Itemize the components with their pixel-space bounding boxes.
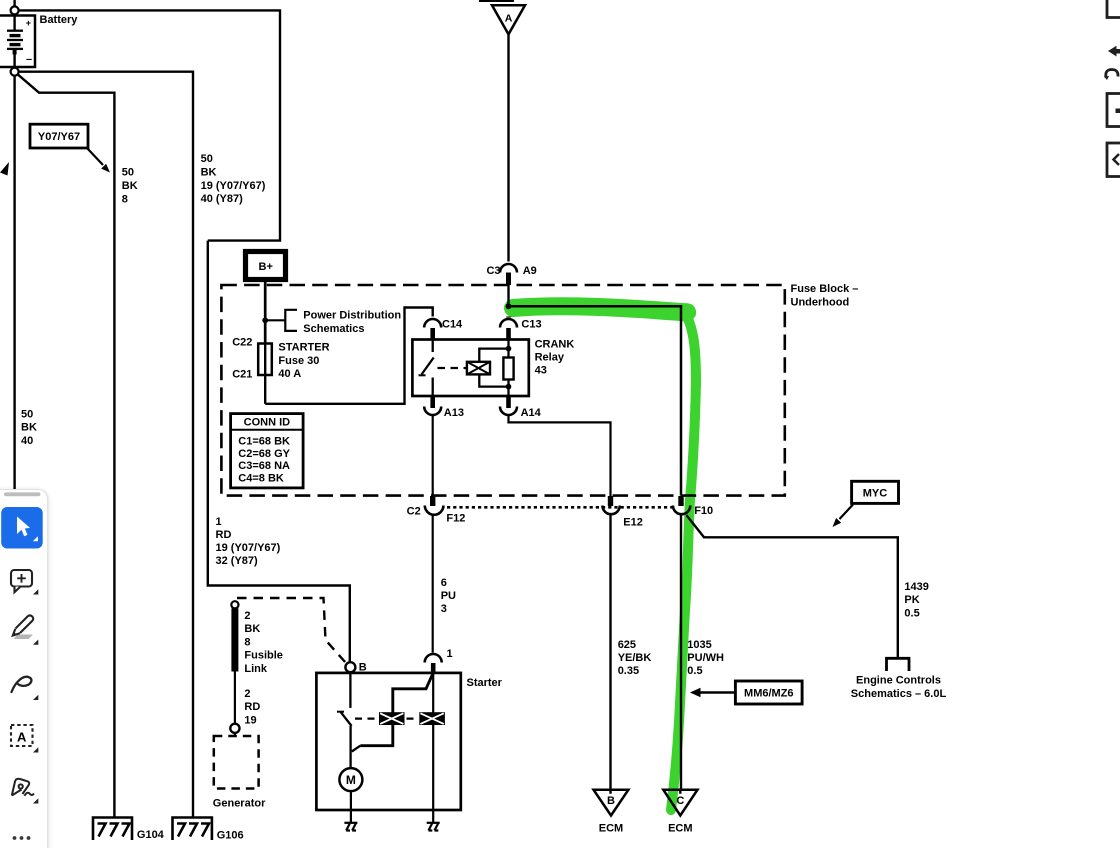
relay linkage dashes [438, 367, 467, 369]
svg-text:PK: PK [904, 594, 919, 606]
starter solenoid feed [360, 673, 433, 746]
svg-text:C13: C13 [521, 319, 541, 331]
connector 1 stub [431, 663, 436, 673]
svg-text:Fuse 30: Fuse 30 [278, 355, 319, 367]
svg-text:BK: BK [201, 166, 217, 178]
toolbar comment tool [11, 570, 32, 592]
toolbar select tool (active) [1, 507, 43, 549]
svg-text:ECM: ECM [668, 823, 692, 835]
off-page bracket power distribution [285, 310, 297, 331]
svg-text:A13: A13 [444, 407, 464, 419]
node relay coil bottom junction [506, 384, 512, 390]
svg-text:3: 3 [441, 603, 447, 615]
wire 50 BK 8 to G104 [15, 72, 115, 818]
ground stub motor [350, 810, 352, 823]
arrow from MYC to wire [840, 505, 854, 520]
arrow from Y07/Y67 to wire [87, 148, 104, 166]
wire junction to F10 (highlighted circuit) [509, 306, 682, 495]
svg-text:BK: BK [21, 422, 37, 434]
connector F10 cup [673, 506, 690, 515]
svg-text:C22: C22 [232, 337, 252, 349]
svg-text:C1=68 BK: C1=68 BK [238, 436, 290, 448]
svg-text:Schematics – 6.0L: Schematics – 6.0L [851, 688, 947, 700]
svg-text:Schematics: Schematics [303, 323, 364, 335]
svg-text:40 (Y87): 40 (Y87) [201, 193, 244, 205]
svg-text:B+: B+ [259, 261, 273, 273]
svg-text:2: 2 [244, 610, 250, 622]
relay coil loop [479, 349, 509, 387]
connector E12 stub [608, 496, 613, 506]
fragment icon box top [1107, 0, 1120, 18]
svg-text:Link: Link [244, 663, 267, 675]
connector A13 stub [430, 396, 435, 408]
toolbar more dots [13, 836, 31, 840]
connector A14 cup [500, 407, 517, 416]
svg-text:A14: A14 [521, 407, 542, 419]
svg-text:19 (Y07/Y67): 19 (Y07/Y67) [216, 542, 281, 554]
fusible link top circle [231, 601, 238, 608]
toolbar signature tool [12, 779, 34, 796]
svg-text:A: A [505, 13, 513, 25]
svg-text:MM6/MZ6: MM6/MZ6 [744, 688, 794, 700]
svg-text:0.5: 0.5 [687, 665, 702, 677]
svg-text:Battery: Battery [40, 14, 79, 26]
starter solenoid winding 1 [380, 713, 403, 724]
toolbar drag handle [4, 492, 41, 496]
svg-text:8: 8 [122, 193, 128, 205]
fragment undo arrow [1108, 46, 1120, 57]
connector label box Y07/Y67 [30, 124, 88, 148]
svg-text:C2=68 GY: C2=68 GY [238, 448, 290, 460]
starter motor M circle [339, 768, 362, 791]
svg-text:50: 50 [122, 167, 134, 179]
svg-text:C4=8 BK: C4=8 BK [238, 472, 284, 484]
arrow from MM6/MZ6 to wire [699, 691, 735, 693]
svg-text:Fusible: Fusible [244, 650, 283, 662]
ground symbol starter solenoid [427, 823, 440, 831]
connector F10 stub [678, 496, 683, 506]
svg-text:Starter: Starter [467, 677, 503, 689]
svg-text:M: M [346, 773, 356, 787]
connector C2/F12 cup [425, 506, 444, 515]
relay resistor [507, 340, 509, 397]
triangle connector C ECM [663, 790, 697, 816]
generator dashed box [214, 736, 259, 789]
fragment redo curl [1106, 70, 1118, 78]
svg-text:PU: PU [441, 590, 456, 602]
connector C13 dome [500, 319, 517, 328]
starter terminal B circle [345, 662, 355, 672]
fuse F30 STARTER body [264, 344, 266, 404]
green highlighter stroke [513, 306, 696, 810]
svg-text:Fuse Block –: Fuse Block – [791, 283, 859, 295]
svg-text:40 A: 40 A [278, 368, 301, 380]
svg-text:CRANK: CRANK [535, 339, 575, 351]
wire battery+ to B+ drop [15, 10, 280, 240]
svg-text:C3: C3 [486, 265, 500, 277]
connector C3/A9 stub [506, 273, 511, 286]
fragment tool box 2 [1107, 143, 1120, 177]
fragment tool box 1 [1107, 94, 1120, 127]
wire C3 to C13 junction [507, 285, 509, 306]
svg-text:6: 6 [441, 577, 447, 589]
svg-text:2: 2 [244, 688, 250, 700]
svg-text:Relay: Relay [535, 352, 565, 364]
wire F10 to MYC net [687, 515, 898, 657]
svg-text:625: 625 [618, 639, 636, 651]
svg-text:PU/WH: PU/WH [687, 652, 724, 664]
dashed wire fusible link to B [237, 598, 346, 663]
connector E12 cup [602, 506, 619, 515]
node fuse feed junction [262, 317, 268, 323]
starter box [316, 673, 460, 810]
wire B+ to fuse [264, 280, 267, 344]
svg-text:F12: F12 [446, 513, 465, 525]
svg-text:1035: 1035 [687, 639, 711, 651]
triangle connector B ECM [594, 790, 629, 816]
toolbar pen tool [14, 635, 34, 640]
connector C2/F12 stub [430, 496, 435, 506]
dotted connector line C2 to F10 [447, 506, 672, 509]
svg-text:50: 50 [201, 153, 213, 165]
svg-text:0.5: 0.5 [904, 607, 919, 619]
svg-text:Generator: Generator [213, 798, 266, 810]
relay switch [419, 340, 434, 397]
svg-text:G106: G106 [217, 830, 244, 842]
wire A13 to C2 [432, 415, 434, 496]
svg-text:8: 8 [244, 636, 250, 648]
right edge toolbar fragments [1104, 0, 1120, 190]
svg-text:C2: C2 [407, 506, 421, 518]
wire battery vertical [13, 0, 15, 493]
wire A14 to E12 [509, 415, 611, 496]
svg-text:Y07/Y67: Y07/Y67 [38, 131, 80, 143]
svg-text:–: – [26, 54, 32, 66]
svg-text:1: 1 [447, 648, 453, 660]
svg-text:E12: E12 [623, 517, 643, 529]
svg-text:50: 50 [21, 409, 33, 421]
wire E12 to ECM B [609, 515, 611, 794]
svg-text:BK: BK [244, 623, 260, 635]
connector C13 stub [506, 317, 511, 340]
battery B1 plates [7, 31, 23, 55]
svg-text:A: A [17, 730, 27, 745]
svg-text:B: B [359, 662, 367, 674]
starter linkage dashes [355, 717, 418, 719]
svg-text:RD: RD [244, 701, 260, 713]
svg-text:C3=68 NA: C3=68 NA [238, 460, 290, 472]
connector A14 stub [506, 396, 511, 408]
node battery negative junction [11, 68, 19, 76]
wire from A down to C3 [507, 34, 509, 261]
svg-text:19 (Y07/Y67): 19 (Y07/Y67) [201, 180, 266, 192]
toolbar lasso/scribble tool [12, 677, 32, 692]
svg-text:G104: G104 [137, 829, 165, 841]
B+ tag box [246, 252, 286, 280]
wire fusible link to generator [234, 672, 236, 724]
generator junction circle [230, 724, 239, 733]
relay K1 CRANK box [412, 340, 528, 397]
svg-text:+: + [26, 18, 31, 28]
relay coil box with X [467, 362, 490, 375]
svg-text:Engine Controls: Engine Controls [856, 675, 941, 687]
ground symbol starter motor [344, 823, 357, 831]
svg-text:32 (Y87): 32 (Y87) [216, 555, 259, 567]
MYC label box [852, 481, 899, 503]
connector A13 cup [424, 407, 441, 416]
svg-text:C21: C21 [232, 369, 252, 381]
battery B1 box [0, 16, 35, 68]
arrow off-page left [0, 162, 9, 176]
wire 1 RD vertical to starter B [208, 241, 350, 663]
svg-text:STARTER: STARTER [278, 342, 329, 354]
svg-text:Power Distribution: Power Distribution [303, 310, 401, 322]
svg-text:C14: C14 [442, 319, 463, 331]
svg-text:A9: A9 [523, 265, 537, 277]
fuse block underhood dashed border [221, 285, 784, 496]
starter switch from B [337, 672, 360, 768]
node relay coil top junction [506, 346, 512, 352]
wire stubs into triangles [611, 790, 681, 794]
svg-text:BK: BK [122, 180, 138, 192]
node battery positive junction [11, 6, 19, 14]
connector C3/A9 dome [500, 264, 517, 273]
wire motor to ground [350, 791, 352, 810]
MM6/MZ6 label box [735, 681, 802, 704]
connector 1 dome at starter [425, 654, 442, 663]
connector C14 dome [424, 319, 441, 328]
wire generator circle to box [234, 733, 236, 736]
page-edge tick top [479, 0, 514, 2]
svg-text:F10: F10 [694, 505, 713, 517]
wire fuse to C14 [265, 308, 433, 404]
starter solenoid winding 2 [420, 713, 443, 724]
ground stub solenoid [432, 810, 434, 823]
starter hold-in wire to ground [432, 673, 434, 810]
svg-text:MYC: MYC [863, 488, 888, 500]
svg-text:19: 19 [244, 714, 256, 726]
svg-text:1439: 1439 [904, 581, 928, 593]
ground G104 symbol [93, 818, 132, 841]
svg-text:CONN ID: CONN ID [244, 417, 291, 429]
svg-text:YE/BK: YE/BK [618, 652, 652, 664]
node junction above C13 [506, 303, 512, 309]
wire F12 to starter terminal 1 [432, 515, 434, 653]
svg-text:Underhood: Underhood [791, 297, 850, 309]
svg-text:RD: RD [216, 529, 232, 541]
svg-text:ECM: ECM [599, 823, 623, 835]
wire battery- to G106 [15, 72, 193, 818]
triangle connector A [492, 5, 525, 34]
ground G106 symbol [173, 818, 212, 841]
svg-text:B: B [607, 795, 615, 807]
off-page bracket engine controls [887, 658, 910, 671]
connector C14 stub [430, 328, 435, 340]
svg-text:43: 43 [535, 365, 547, 377]
annotation toolbar panel [0, 489, 48, 848]
svg-text:0.35: 0.35 [618, 665, 639, 677]
CONN ID table box [231, 414, 304, 488]
fusible link thick bar [231, 609, 238, 672]
svg-text:40: 40 [21, 435, 33, 447]
wire F10 to ECM C [680, 515, 682, 794]
svg-text:1: 1 [216, 516, 222, 528]
CONN ID header rule [231, 429, 304, 431]
toolbar text box tool [11, 725, 33, 746]
wire to power distribution bracket [265, 319, 285, 321]
